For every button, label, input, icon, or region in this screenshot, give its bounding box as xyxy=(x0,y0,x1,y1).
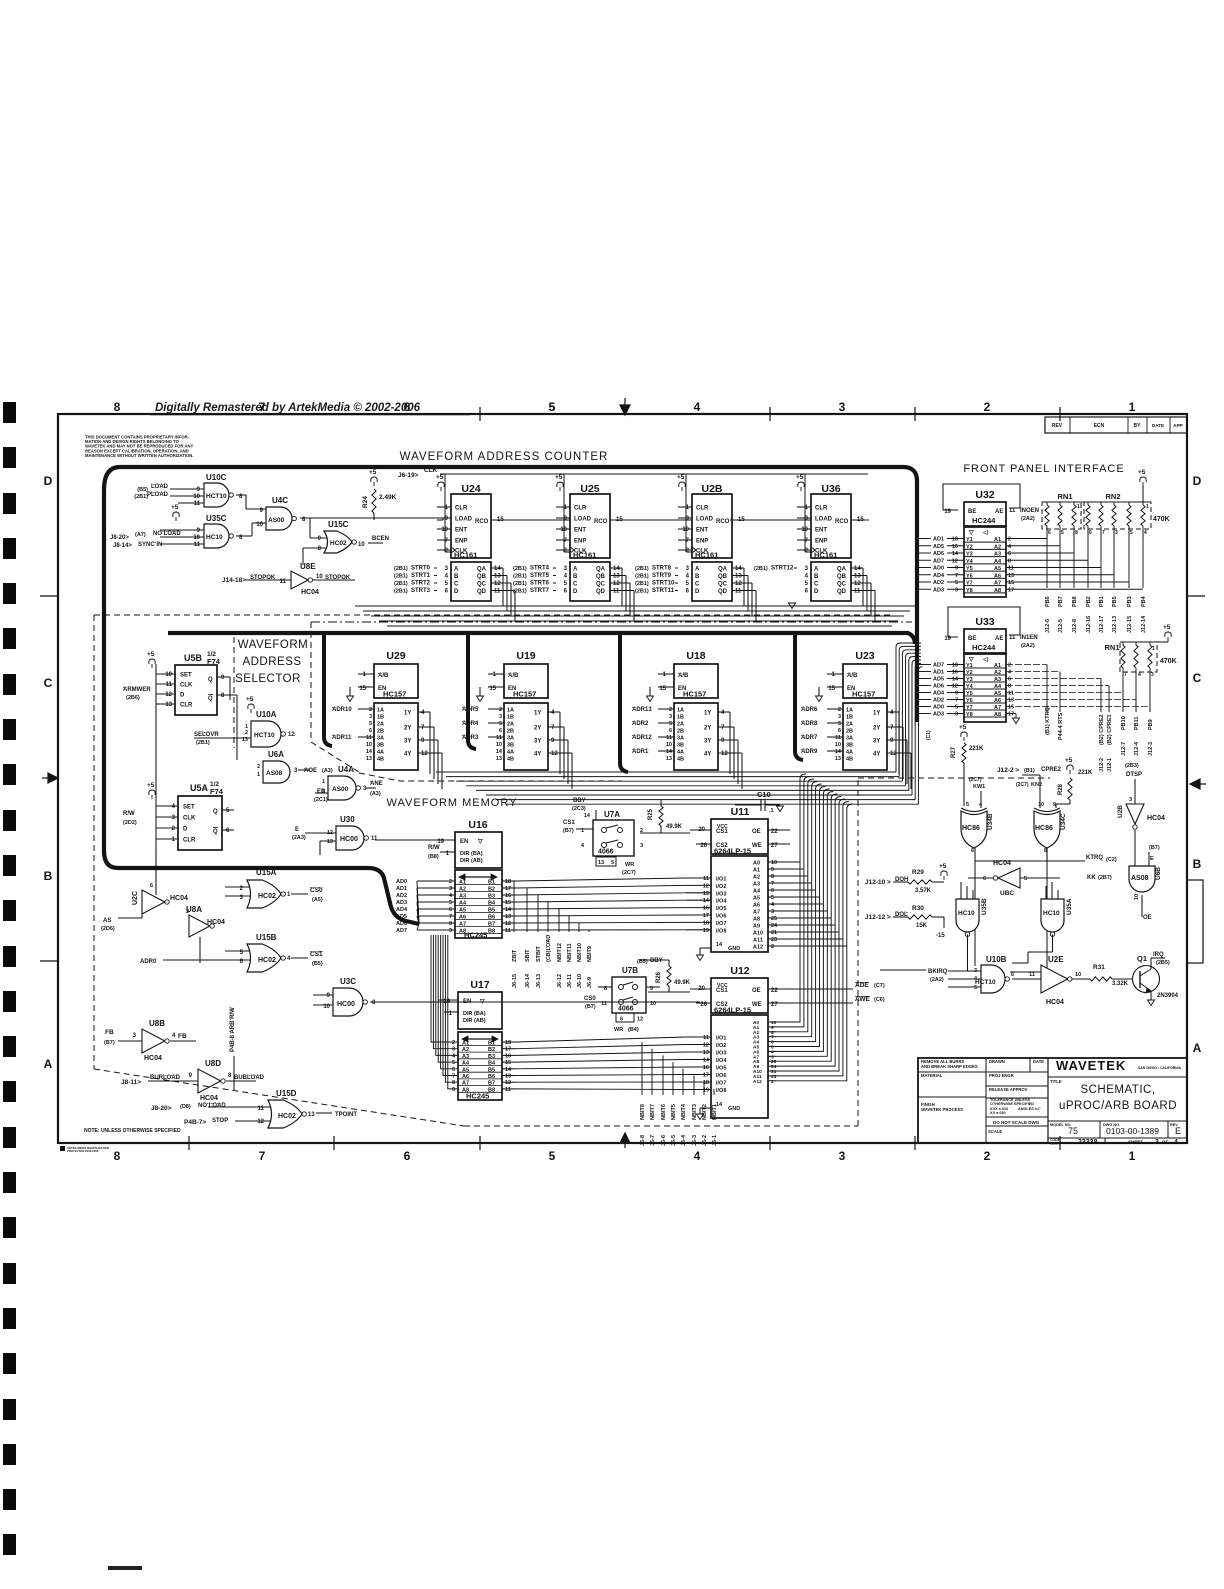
svg-text:WE: WE xyxy=(752,843,762,849)
svg-text:PB6: PB6 xyxy=(1045,596,1051,607)
svg-text:U10A: U10A xyxy=(256,710,277,719)
svg-text:6: 6 xyxy=(226,828,230,834)
svg-text:BE: BE xyxy=(968,509,976,515)
svg-text:3: 3 xyxy=(955,712,958,718)
svg-text:4: 4 xyxy=(890,710,894,716)
svg-text:(2B3): (2B3) xyxy=(1125,763,1139,769)
svg-text:I/O4: I/O4 xyxy=(716,899,727,905)
svg-text:7: 7 xyxy=(259,1149,266,1163)
svg-text:4A: 4A xyxy=(377,750,384,756)
svg-text:2: 2 xyxy=(1008,663,1011,669)
gate U15D HC02 xyxy=(151,1089,357,1128)
svg-text:AD6: AD6 xyxy=(933,684,944,690)
svg-text:R24: R24 xyxy=(362,496,369,508)
svg-text:11: 11 xyxy=(505,928,511,934)
svg-text:2: 2 xyxy=(172,826,176,832)
dashed boundary outer selector/memory xyxy=(94,615,1050,1126)
thick bus branch U18 and U33 column xyxy=(620,633,628,772)
svg-text:13: 13 xyxy=(613,574,620,580)
svg-text:6: 6 xyxy=(404,1149,411,1163)
svg-text:D: D xyxy=(454,589,459,595)
gate U4C AS00 xyxy=(256,496,443,530)
svg-text:8: 8 xyxy=(114,400,121,414)
svg-text:ENT: ENT xyxy=(574,528,586,534)
svg-text:11: 11 xyxy=(1009,508,1016,514)
svg-text:10: 10 xyxy=(165,672,172,678)
svg-text:AD3: AD3 xyxy=(396,900,407,906)
wire bus address to rams vertical xyxy=(776,774,853,1081)
svg-text:4: 4 xyxy=(805,574,809,580)
svg-text:1B: 1B xyxy=(846,715,853,721)
svg-text:3: 3 xyxy=(294,768,298,774)
svg-text:U19: U19 xyxy=(516,650,535,662)
ground Q1 xyxy=(1148,1000,1155,1006)
svg-text:AE: AE xyxy=(995,636,1003,642)
svg-text:3: 3 xyxy=(1155,1139,1159,1146)
svg-text:2: 2 xyxy=(771,1079,774,1085)
svg-text:QC: QC xyxy=(596,582,606,588)
svg-text:A6: A6 xyxy=(994,573,1001,579)
svg-text:J6-15: J6-15 xyxy=(512,974,518,988)
svg-text:AS00: AS00 xyxy=(268,517,285,524)
svg-text:U8E: U8E xyxy=(300,562,316,571)
svg-text:2: 2 xyxy=(686,548,690,554)
svg-text:SET: SET xyxy=(180,673,192,679)
svg-text:FB: FB xyxy=(105,1029,114,1036)
svg-text:U7A: U7A xyxy=(604,810,620,819)
svg-text:U8D: U8D xyxy=(205,1059,221,1068)
svg-text:3: 3 xyxy=(1129,797,1132,803)
svg-text:3: 3 xyxy=(369,714,372,720)
svg-text:4Y: 4Y xyxy=(704,752,711,758)
svg-text:J6-2: J6-2 xyxy=(702,1135,708,1146)
svg-text:WAVEFORM ADDRESS COUNTER: WAVEFORM ADDRESS COUNTER xyxy=(400,451,609,463)
svg-text:HC02: HC02 xyxy=(258,957,276,964)
svg-text:HC244: HC244 xyxy=(972,643,996,652)
svg-text:B1: B1 xyxy=(488,880,495,886)
svg-text:REV: REV xyxy=(1052,423,1063,429)
svg-text:5: 5 xyxy=(369,721,372,727)
svg-text:A5: A5 xyxy=(753,896,760,902)
svg-text:MAINTENANCE WITHOUT WRITTEN AU: MAINTENANCE WITHOUT WRITTEN AUTHORIZATIO… xyxy=(85,453,193,458)
svg-text:A1: A1 xyxy=(462,1041,469,1047)
svg-text:12: 12 xyxy=(735,581,742,587)
svg-text:(2A2): (2A2) xyxy=(1021,643,1035,649)
svg-text:+5: +5 xyxy=(959,724,967,731)
svg-text:HC161: HC161 xyxy=(695,551,718,560)
svg-text:9: 9 xyxy=(421,738,425,744)
svg-text:AND BREAK SHARP EDGES: AND BREAK SHARP EDGES xyxy=(921,1064,978,1069)
svg-text:16: 16 xyxy=(952,544,958,550)
svg-text:10: 10 xyxy=(1038,802,1044,808)
svg-text:3: 3 xyxy=(839,1149,846,1163)
zone ticks top xyxy=(480,407,1060,421)
svg-text:HC86: HC86 xyxy=(1035,825,1053,832)
title block numbers xyxy=(1050,1123,1181,1146)
svg-text:CLR: CLR xyxy=(815,506,828,512)
counter U36 data section xyxy=(754,562,875,621)
svg-text:7: 7 xyxy=(955,698,958,704)
svg-text:HC04: HC04 xyxy=(200,1095,218,1102)
svg-text:18: 18 xyxy=(505,879,511,885)
svg-text:2A: 2A xyxy=(677,722,684,728)
wire bus U17 to U12 data xyxy=(516,1037,686,1090)
svg-text:(2B1): (2B1) xyxy=(754,566,768,572)
svg-text:WE: WE xyxy=(752,1002,762,1008)
svg-text:6: 6 xyxy=(771,888,774,894)
svg-text:AD3: AD3 xyxy=(933,587,944,593)
svg-text:ANE: ANE xyxy=(370,781,383,787)
svg-text:C: C xyxy=(1193,671,1202,685)
svg-text:ADR3: ADR3 xyxy=(462,735,479,741)
svg-text:PB7: PB7 xyxy=(1058,596,1064,607)
svg-text:1: 1 xyxy=(445,505,449,511)
gate U4A AS00 xyxy=(314,765,383,803)
svg-text:(2B1): (2B1) xyxy=(513,574,527,580)
svg-text:1: 1 xyxy=(832,672,836,678)
svg-text:7: 7 xyxy=(890,725,894,731)
svg-text:A8: A8 xyxy=(994,588,1001,594)
wavetek logo xyxy=(1056,1058,1182,1073)
svg-text:3Y: 3Y xyxy=(704,739,711,745)
svg-text:14: 14 xyxy=(496,749,503,755)
svg-text:AD6: AD6 xyxy=(396,921,407,927)
svg-text:3Y: 3Y xyxy=(873,739,880,745)
svg-text:SYNC IN: SYNC IN xyxy=(138,542,162,548)
svg-text:STOP: STOP xyxy=(212,1118,228,1124)
power +5 RN top xyxy=(1042,469,1151,502)
alignment arrow left xyxy=(42,773,58,783)
svg-text:AD1: AD1 xyxy=(933,670,944,676)
svg-text:9: 9 xyxy=(564,516,568,522)
svg-text:WAVETEK: WAVETEK xyxy=(1056,1058,1126,1073)
svg-text:19: 19 xyxy=(703,928,709,934)
svg-text:6: 6 xyxy=(838,728,841,734)
svg-text:U23: U23 xyxy=(855,650,874,662)
svg-text:(B2) CPRE1: (B2) CPRE1 xyxy=(1107,714,1113,745)
zone ticks right xyxy=(1187,595,1205,597)
svg-text:5: 5 xyxy=(686,581,690,587)
svg-text:CLR: CLR xyxy=(183,838,196,844)
svg-text:Y1: Y1 xyxy=(966,537,973,543)
selector U29 mux section xyxy=(332,703,442,789)
svg-text:DIR (AB): DIR (AB) xyxy=(463,1018,486,1024)
svg-text:3: 3 xyxy=(686,566,690,572)
svg-text:13: 13 xyxy=(327,839,333,845)
svg-text:10: 10 xyxy=(1134,894,1140,900)
svg-text:HCT10: HCT10 xyxy=(206,493,227,500)
svg-text:PB1: PB1 xyxy=(1099,596,1105,607)
svg-text:ADR0: ADR0 xyxy=(140,959,157,965)
svg-text:NBIT4: NBIT4 xyxy=(681,1103,687,1120)
svg-text:1A: 1A xyxy=(846,708,853,714)
svg-text:5: 5 xyxy=(955,705,958,711)
svg-text:◁: ◁ xyxy=(982,529,988,536)
svg-text:470K: 470K xyxy=(1160,658,1177,665)
svg-text:PB2: PB2 xyxy=(1086,596,1092,607)
svg-text:4066: 4066 xyxy=(598,849,614,856)
and U6B AS08 xyxy=(1129,832,1162,921)
analog switch U7A 4066 xyxy=(563,798,643,876)
svg-text:23338: 23338 xyxy=(1078,1139,1098,1146)
svg-text:QB: QB xyxy=(477,574,487,580)
svg-text:AS: AS xyxy=(103,918,111,924)
svg-text:A1: A1 xyxy=(459,880,466,886)
svg-text:A/B: A/B xyxy=(678,673,689,679)
svg-text:6264LP-15: 6264LP-15 xyxy=(714,1006,751,1015)
dash-dot inner selector boundary xyxy=(234,622,912,781)
svg-text:9: 9 xyxy=(197,487,201,493)
svg-text:NBIT6: NBIT6 xyxy=(661,1104,667,1120)
svg-text:U34C: U34C xyxy=(1060,813,1067,830)
svg-text:12: 12 xyxy=(703,1043,709,1049)
svg-text:NBIT5: NBIT5 xyxy=(671,1104,677,1120)
svg-text:3: 3 xyxy=(640,843,643,849)
svg-text:5: 5 xyxy=(445,581,449,587)
gate U15B HC02 xyxy=(140,933,323,972)
svg-text:2B: 2B xyxy=(677,729,684,735)
svg-text:R26: R26 xyxy=(656,971,662,983)
svg-text:A4: A4 xyxy=(753,889,761,895)
svg-text:6: 6 xyxy=(1008,551,1011,557)
svg-text:1B: 1B xyxy=(377,715,384,721)
svg-text:STRT0: STRT0 xyxy=(411,566,431,572)
ground at U29 EN xyxy=(347,696,354,702)
bottom edge mark xyxy=(108,1566,142,1570)
svg-text:A1: A1 xyxy=(994,537,1001,543)
svg-text:+5: +5 xyxy=(246,696,254,703)
svg-text:SCHEMATIC,: SCHEMATIC, xyxy=(1080,1084,1155,1096)
svg-text:R29: R29 xyxy=(912,869,924,876)
svg-text:14: 14 xyxy=(952,551,959,557)
transistor Q1 2N3904 xyxy=(1133,952,1179,1000)
svg-text:◁: ◁ xyxy=(982,656,988,663)
svg-text:(C6): (C6) xyxy=(874,997,885,1003)
svg-text:IDENT: IDENT xyxy=(1050,1142,1061,1146)
transceiver U17 HC245 data xyxy=(431,935,516,1101)
svg-text:EB: EB xyxy=(317,789,326,795)
svg-text:RN2: RN2 xyxy=(1105,492,1120,501)
svg-text:RN1: RN1 xyxy=(1104,643,1119,652)
ram U12 6264 control xyxy=(690,965,885,1015)
svg-text:B3: B3 xyxy=(488,894,495,900)
svg-text:J12-7: J12-7 xyxy=(1121,742,1127,756)
svg-text:9: 9 xyxy=(445,516,449,522)
svg-text:3B: 3B xyxy=(507,743,514,749)
svg-text:HC04: HC04 xyxy=(1046,999,1064,1006)
svg-text:2Y: 2Y xyxy=(404,726,411,732)
svg-text:AD0: AD0 xyxy=(933,705,944,711)
svg-text:(B1): (B1) xyxy=(1024,768,1035,774)
svg-text:AD5: AD5 xyxy=(933,544,944,550)
svg-text:+5: +5 xyxy=(677,474,685,481)
svg-text:2: 2 xyxy=(369,707,372,713)
svg-text:PB3: PB3 xyxy=(1127,596,1133,607)
svg-text:0103-00-1389: 0103-00-1389 xyxy=(1106,1126,1159,1136)
svg-text:A: A xyxy=(44,1057,53,1071)
svg-text:A12: A12 xyxy=(753,1079,762,1085)
svg-text:ADR4: ADR4 xyxy=(462,721,479,727)
svg-text:B: B xyxy=(695,574,700,580)
svg-text:J12-14: J12-14 xyxy=(1141,615,1147,633)
svg-text:1A: 1A xyxy=(377,708,384,714)
svg-text:A2: A2 xyxy=(459,887,466,893)
svg-text:7: 7 xyxy=(1102,530,1105,536)
svg-text:(D8): (D8) xyxy=(180,1104,191,1110)
svg-text:3: 3 xyxy=(955,587,958,593)
buffer U32 HC244 control xyxy=(943,484,1039,526)
svg-text:C10: C10 xyxy=(757,790,771,799)
svg-text:HC245: HC245 xyxy=(466,1092,489,1101)
svg-text:IN1EN: IN1EN xyxy=(1020,635,1038,641)
svg-text:J6-14: J6-14 xyxy=(525,973,531,988)
svg-text:DATE: DATE xyxy=(1152,423,1164,428)
svg-text:Digitally Remastered by ArtekM: Digitally Remastered by ArtekMedia © 200… xyxy=(155,402,421,414)
svg-text:5: 5 xyxy=(452,1060,455,1066)
svg-text:U35A: U35A xyxy=(1066,898,1073,915)
svg-text:R27: R27 xyxy=(951,746,957,758)
svg-text:14: 14 xyxy=(505,907,512,913)
svg-text:A1: A1 xyxy=(994,663,1001,669)
svg-text:15: 15 xyxy=(1008,705,1014,711)
svg-text:17: 17 xyxy=(505,886,511,892)
svg-text:10: 10 xyxy=(560,527,567,533)
svg-text:QB: QB xyxy=(596,574,606,580)
svg-text:HC00: HC00 xyxy=(337,1001,355,1008)
svg-text:3: 3 xyxy=(669,714,672,720)
svg-text:18: 18 xyxy=(952,537,958,543)
svg-text:5: 5 xyxy=(669,721,672,727)
svg-text:U33: U33 xyxy=(975,616,994,628)
svg-text:11: 11 xyxy=(1008,691,1014,697)
svg-text:2.49K: 2.49K xyxy=(379,494,397,501)
svg-text:2: 2 xyxy=(257,764,260,770)
svg-text:U29: U29 xyxy=(386,650,405,662)
svg-text:BCEN: BCEN xyxy=(372,536,389,542)
svg-text:1: 1 xyxy=(663,672,667,678)
svg-text:U35C: U35C xyxy=(206,514,227,523)
svg-text:12: 12 xyxy=(257,1119,264,1125)
svg-text:U35B: U35B xyxy=(981,898,988,915)
svg-text:A6: A6 xyxy=(994,698,1001,704)
gate U35C HC10 xyxy=(110,514,266,549)
svg-text:WAVETEK PROCESS: WAVETEK PROCESS xyxy=(921,1107,963,1112)
svg-text:I/O7: I/O7 xyxy=(716,921,726,927)
svg-text:13: 13 xyxy=(505,914,511,920)
svg-text:11: 11 xyxy=(194,501,201,507)
svg-text:2B: 2B xyxy=(846,729,853,735)
title text digitally remastered xyxy=(150,402,470,415)
svg-text:A7: A7 xyxy=(459,922,466,928)
svg-text:I/O1: I/O1 xyxy=(716,1036,726,1042)
svg-text:B4: B4 xyxy=(488,901,496,907)
gate U10C HCT10 xyxy=(134,473,266,509)
svg-text:Y3: Y3 xyxy=(966,552,973,558)
svg-text:+5: +5 xyxy=(939,863,947,870)
svg-text:2: 2 xyxy=(1008,537,1011,543)
svg-text:8: 8 xyxy=(449,921,452,927)
svg-text:ENP: ENP xyxy=(696,539,708,545)
svg-text:(B7): (B7) xyxy=(104,1040,115,1046)
svg-text:6: 6 xyxy=(449,907,452,913)
svg-text:A6: A6 xyxy=(459,915,466,921)
svg-text:2A: 2A xyxy=(377,722,384,728)
wire bus under counters xyxy=(355,606,916,626)
svg-text:NOTE: UNLESS OTHERWISE SPECIFI: NOTE: UNLESS OTHERWISE SPECIFIED xyxy=(84,1128,181,1134)
svg-text:14: 14 xyxy=(735,566,742,572)
svg-text:I/O8: I/O8 xyxy=(716,928,726,934)
svg-text:NBIT7: NBIT7 xyxy=(650,1104,656,1120)
svg-text:A12: A12 xyxy=(753,945,763,951)
svg-text:6: 6 xyxy=(445,589,449,595)
svg-text:TITLE: TITLE xyxy=(1050,1079,1062,1084)
svg-text:6: 6 xyxy=(369,728,372,734)
svg-text:3B: 3B xyxy=(846,743,853,749)
svg-text:STRT2: STRT2 xyxy=(411,581,431,587)
svg-text:LOAD: LOAD xyxy=(151,484,169,490)
svg-text:4: 4 xyxy=(581,843,585,849)
svg-text:Q: Q xyxy=(213,829,218,835)
svg-text:APP: APP xyxy=(1173,423,1182,428)
svg-text:3B: 3B xyxy=(677,743,684,749)
svg-text:12: 12 xyxy=(952,558,958,564)
svg-text:12: 12 xyxy=(551,751,558,757)
svg-text:12: 12 xyxy=(505,1080,511,1086)
svg-text:4: 4 xyxy=(1174,1139,1178,1146)
svg-text:AD2: AD2 xyxy=(933,698,944,704)
svg-text:15K: 15K xyxy=(916,923,928,929)
thick bus branch U19 xyxy=(468,633,476,749)
svg-text:3: 3 xyxy=(363,786,367,792)
svg-text:J12-1: J12-1 xyxy=(1107,758,1113,772)
svg-text:PLOAD: PLOAD xyxy=(147,492,169,498)
svg-text:CLK: CLK xyxy=(180,683,193,689)
svg-text:5: 5 xyxy=(838,721,841,727)
svg-text:10: 10 xyxy=(835,742,841,748)
svg-text:ENT: ENT xyxy=(815,528,827,534)
svg-text:1: 1 xyxy=(287,892,291,898)
svg-text:QB: QB xyxy=(718,574,728,580)
transceiver U17 HC245 control xyxy=(438,979,502,1029)
svg-text:5: 5 xyxy=(966,802,969,808)
svg-text:4B: 4B xyxy=(507,757,514,763)
svg-text:10: 10 xyxy=(441,527,448,533)
resistor R26 xyxy=(637,958,691,992)
svg-text:GND: GND xyxy=(728,1106,740,1112)
selector U18 mux section xyxy=(632,703,742,789)
svg-text:U30: U30 xyxy=(340,815,355,824)
svg-text:UBC: UBC xyxy=(1000,890,1014,897)
svg-text:A7: A7 xyxy=(994,581,1001,587)
gate U10A HCT10 xyxy=(194,696,295,747)
svg-text:R30: R30 xyxy=(912,905,924,912)
svg-text:Y8: Y8 xyxy=(966,588,973,594)
svg-text:4Y: 4Y xyxy=(404,752,411,758)
svg-text:A3: A3 xyxy=(753,882,760,888)
svg-text:11: 11 xyxy=(496,735,502,741)
svg-text:17: 17 xyxy=(1008,712,1014,718)
ground at U23 EN xyxy=(816,696,823,702)
power +5 RN lower xyxy=(1120,624,1171,642)
svg-text:DO NOT SCALE DWG: DO NOT SCALE DWG xyxy=(993,1120,1040,1125)
svg-text:(B1) KTRQ: (B1) KTRQ xyxy=(1045,706,1051,735)
flip-flop U5A F74 xyxy=(123,781,234,850)
svg-text:(2D2): (2D2) xyxy=(123,820,137,826)
svg-text:16: 16 xyxy=(703,1065,709,1071)
svg-text:U6A: U6A xyxy=(268,750,284,759)
svg-text:Y4: Y4 xyxy=(966,559,974,565)
svg-text:A0: A0 xyxy=(753,861,760,867)
